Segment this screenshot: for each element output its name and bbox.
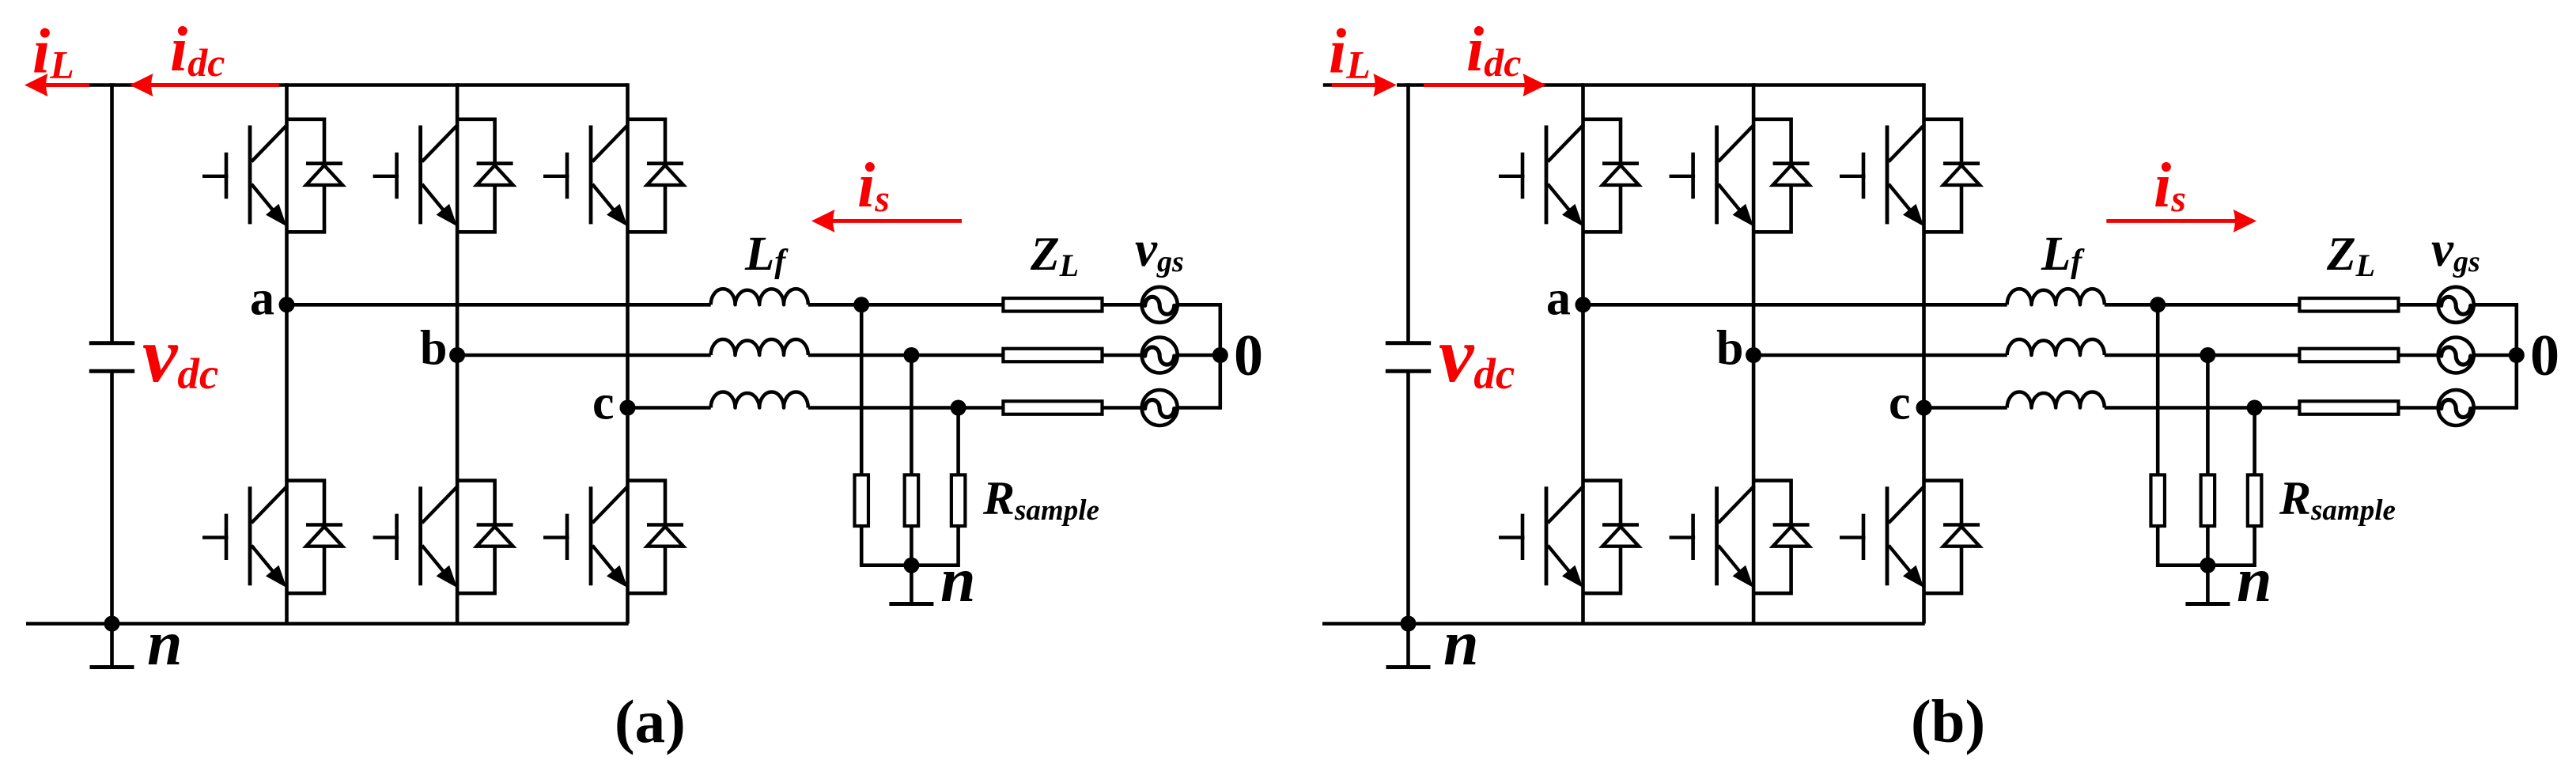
node 0 junction (a) (1212, 347, 1228, 363)
transistor Q4a (IGBT) (373, 486, 458, 588)
svg-text:n: n (940, 546, 976, 615)
resistor R_sample phase b (b) (2201, 475, 2215, 526)
node phase c at leg (a) (620, 400, 636, 416)
ac source v_gs phase a (b) (2438, 287, 2474, 323)
svg-text:a: a (250, 271, 274, 325)
diode D4b (freewheeling) (1753, 481, 1810, 594)
wire phase c : source to node 0 (b) (2474, 406, 2517, 410)
diode D6b (freewheeling) (1924, 481, 1980, 594)
node phase c sampling tap (a) (951, 400, 966, 416)
svg-text:vgs: vgs (2431, 221, 2480, 278)
wire inverter leg A vertical (a) (285, 83, 289, 623)
ground n (dc-link, b) (1386, 624, 1431, 668)
wire phase c : inductor to load (a) (808, 406, 1004, 410)
wire top dc bus (b) (1397, 83, 1924, 87)
svg-text:(a): (a) (615, 687, 686, 755)
wire sampling resistor to rail phase a (a) (860, 526, 864, 567)
transistor Q2a (IGBT) (202, 486, 288, 588)
node sampling common n (b) (2200, 558, 2215, 573)
resistor R_sample phase c (a) (951, 475, 966, 526)
inductor Lf phase c (a) (711, 392, 808, 407)
ac source v_gs phase b (a) (1142, 338, 1178, 373)
wire phase b : leg to filter inductor (b) (1753, 354, 2007, 358)
wire sampling drop phase c (a) (956, 408, 960, 475)
svg-text:c: c (1889, 376, 1911, 429)
diode D6a (freewheeling) (628, 481, 684, 594)
diode D3a (freewheeling) (457, 119, 513, 232)
svg-text:(b): (b) (1911, 687, 1985, 755)
node sampling common n (a) (903, 558, 919, 573)
svg-text:Lf: Lf (744, 228, 789, 281)
transistor Q4b (IGBT) (1670, 486, 1755, 588)
resistor ZL phase c (load impedance, b) (2299, 401, 2398, 414)
node phase a sampling tap (a) (853, 297, 869, 312)
wire inverter leg A vertical (b) (1581, 83, 1585, 623)
wire phase c : leg to filter inductor (a) (628, 406, 711, 410)
inductor Lf phase a (b) (2007, 289, 2105, 305)
current arrow i_L (a) (25, 74, 89, 96)
svg-text:Rsample: Rsample (982, 472, 1099, 527)
wire phase a : inductor to load (a) (808, 303, 1004, 307)
resistor ZL phase c (load impedance, a) (1003, 401, 1102, 414)
wire phase b : inductor to load (b) (2105, 354, 2300, 358)
svg-text:vgs: vgs (1135, 221, 1184, 278)
diode D5b (freewheeling) (1924, 119, 1980, 232)
wire phase b : source to node 0 (a) (1178, 354, 1220, 358)
svg-text:c: c (592, 376, 615, 429)
wire inverter leg B vertical (a) (456, 83, 460, 623)
node phase a at leg (a) (279, 297, 295, 312)
svg-text:vdc: vdc (1439, 311, 1515, 399)
ac source v_gs phase a (a) (1142, 287, 1178, 323)
ground n (sampling, a) (889, 566, 933, 604)
transistor Q3a (IGBT) (373, 124, 458, 226)
svg-text:is: is (2154, 151, 2186, 221)
svg-text:a: a (1546, 271, 1571, 325)
node 0 junction (b) (2509, 347, 2525, 363)
wire bottom dc bus (a) (26, 622, 629, 626)
transistor Q1b (IGBT) (1499, 124, 1584, 226)
wire inverter leg B vertical (b) (1752, 83, 1756, 623)
svg-text:is: is (857, 151, 890, 221)
wire phase c : leg to filter inductor (b) (1924, 406, 2007, 410)
transistor Q6a (IGBT) (543, 486, 629, 588)
resistor R_sample phase a (a) (854, 475, 868, 526)
svg-text:0: 0 (2530, 323, 2559, 388)
svg-text:ZL: ZL (2326, 228, 2375, 283)
node junction dc-link / bottom bus (a) (104, 616, 120, 632)
resistor ZL phase a (load impedance, b) (2299, 298, 2398, 312)
svg-text:b: b (420, 322, 447, 376)
wire sampling resistor to rail phase a (b) (2156, 526, 2160, 567)
wire sampling resistor to rail phase b (a) (910, 526, 914, 567)
svg-text:vdc: vdc (142, 311, 218, 399)
current arrow i_dc (a) (130, 74, 279, 96)
diode D3b (freewheeling) (1753, 119, 1810, 232)
node phase b at leg (a) (449, 347, 465, 363)
transistor Q5b (IGBT) (1840, 124, 1925, 226)
inductor Lf phase a (a) (711, 289, 808, 305)
diode D1a (freewheeling) (287, 119, 343, 232)
wire sampling drop phase c (b) (2253, 408, 2256, 475)
wire phase b : ZL to source (a) (1103, 354, 1142, 358)
capacitor Cb (v_dc dc-link) (1386, 343, 1431, 372)
wire node-0 vertical rail (a) (1219, 303, 1223, 410)
capacitor Ca (v_dc dc-link) (89, 343, 134, 372)
node phase a sampling tap (b) (2150, 297, 2166, 312)
svg-text:b: b (1716, 322, 1743, 376)
svg-text:iL: iL (32, 17, 74, 87)
resistor R_sample phase c (b) (2248, 475, 2262, 526)
ac source v_gs phase b (b) (2438, 338, 2474, 373)
node phase b at leg (b) (1746, 347, 1761, 363)
node junction dc-link / bottom bus (b) (1401, 616, 1417, 632)
transistor Q3b (IGBT) (1670, 124, 1755, 226)
ac source v_gs phase c (a) (1142, 390, 1178, 426)
node phase c at leg (b) (1916, 400, 1932, 416)
wire sampling drop phase a (a) (860, 305, 864, 475)
svg-text:0: 0 (1234, 323, 1263, 388)
wire phase b : inductor to load (a) (808, 354, 1004, 358)
svg-text:ZL: ZL (1030, 228, 1079, 283)
inductor Lf phase b (b) (2007, 339, 2105, 355)
wire inverter leg C vertical (b) (1922, 83, 1926, 623)
resistor ZL phase b (load impedance, b) (2299, 349, 2398, 362)
svg-text:n: n (2237, 546, 2272, 615)
svg-text:idc: idc (170, 15, 225, 85)
wire sampling drop phase b (b) (2206, 355, 2210, 475)
wire phase a : leg to filter inductor (a) (287, 303, 711, 307)
wire dc-link vertical upper (a) (110, 83, 114, 343)
transistor Q5a (IGBT) (543, 124, 629, 226)
wire phase a : ZL to source (b) (2399, 303, 2438, 307)
wire phase b : source to node 0 (b) (2474, 354, 2517, 358)
transistor Q6b (IGBT) (1840, 486, 1925, 588)
wire phase a : source to node 0 (b) (2474, 303, 2517, 307)
transistor Q1a (IGBT) (202, 124, 288, 226)
wire sampling common rail (a) (861, 563, 958, 567)
wire phase c : ZL to source (a) (1103, 406, 1142, 410)
svg-text:n: n (147, 609, 183, 679)
wire top-left stub (b) (1323, 83, 1338, 87)
current arrow i_dc (b) (1424, 74, 1546, 96)
current arrow i_s (b) (2106, 210, 2256, 233)
wire phase a : leg to filter inductor (b) (1583, 303, 2007, 307)
node phase a at leg (b) (1575, 297, 1591, 312)
wire phase c : ZL to source (b) (2399, 406, 2438, 410)
wire sampling common rail (b) (2158, 563, 2254, 567)
wire inverter leg C vertical (a) (626, 83, 630, 623)
wire top dc bus (a) (87, 83, 628, 87)
svg-text:Rsample: Rsample (2279, 472, 2396, 527)
svg-text:idc: idc (1466, 15, 1521, 85)
resistor R_sample phase a (b) (2150, 475, 2165, 526)
wire phase c : inductor to load (b) (2105, 406, 2300, 410)
wire phase a : inductor to load (b) (2105, 303, 2300, 307)
diode D5a (freewheeling) (628, 119, 684, 232)
wire phase a : source to node 0 (a) (1178, 303, 1220, 307)
resistor ZL phase b (load impedance, a) (1003, 349, 1102, 362)
wire sampling drop phase b (a) (910, 355, 914, 475)
diode D2a (freewheeling) (287, 481, 343, 594)
transistor Q2b (IGBT) (1499, 486, 1584, 588)
diode D4a (freewheeling) (457, 481, 513, 594)
wire sampling resistor to rail phase b (b) (2206, 526, 2210, 567)
node phase b sampling tap (b) (2200, 347, 2215, 363)
svg-text:n: n (1443, 609, 1479, 679)
wire sampling resistor to rail phase c (b) (2253, 526, 2256, 567)
wire phase c : source to node 0 (a) (1178, 406, 1220, 410)
resistor ZL phase a (load impedance, a) (1003, 298, 1102, 312)
resistor R_sample phase b (a) (905, 475, 919, 526)
ac source v_gs phase c (b) (2438, 390, 2474, 426)
inductor Lf phase b (a) (711, 339, 808, 355)
wire dc-link vertical upper (b) (1406, 83, 1410, 343)
wire dc-link vertical lower (a) (110, 371, 114, 623)
diode D1b (freewheeling) (1583, 119, 1640, 232)
current arrow i_L (b) (1332, 74, 1397, 96)
inductor Lf phase c (b) (2007, 392, 2105, 407)
ground n (dc-link, a) (90, 624, 134, 668)
node phase c sampling tap (b) (2247, 400, 2263, 416)
wire phase a : ZL to source (a) (1103, 303, 1142, 307)
current arrow i_s (a) (811, 210, 962, 233)
ground n (sampling, b) (2185, 566, 2230, 604)
wire dc-link vertical lower (b) (1406, 371, 1410, 623)
svg-text:Lf: Lf (2041, 228, 2085, 281)
wire node-0 vertical rail (b) (2515, 303, 2519, 410)
wire phase b : leg to filter inductor (a) (457, 354, 711, 358)
wire sampling drop phase a (b) (2156, 305, 2160, 475)
wire phase b : ZL to source (b) (2399, 354, 2438, 358)
wire bottom dc bus (b) (1322, 622, 1925, 626)
node phase b sampling tap (a) (903, 347, 919, 363)
diode D2b (freewheeling) (1583, 481, 1640, 594)
svg-text:iL: iL (1329, 17, 1371, 87)
wire sampling resistor to rail phase c (a) (956, 526, 960, 567)
